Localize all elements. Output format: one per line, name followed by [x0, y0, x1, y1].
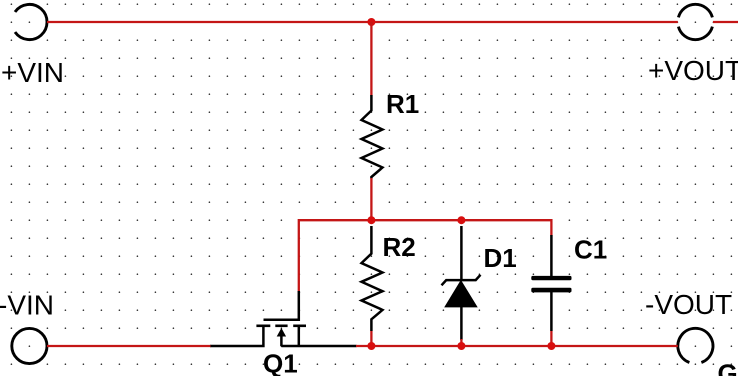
svg-text:C1: C1 [574, 235, 607, 265]
node A junction dot on top rail [367, 18, 375, 26]
node junction dot R2/bottom rail [367, 342, 375, 350]
capacitor C1 [531, 235, 571, 331]
svg-text:R2: R2 [383, 232, 416, 262]
svg-text:+VOUT: +VOUT [648, 55, 738, 86]
label R2 [383, 232, 416, 262]
label R1 [386, 89, 419, 119]
svg-text:D1: D1 [484, 243, 517, 273]
transistor Q1 (N-channel MOSFET) [210, 291, 357, 346]
terminal -VIN (port circle) [12, 328, 47, 363]
wire top rail stub right of +VOUT to image edge [713, 21, 738, 23]
wire gate node rail with drops to Q1 gate and C1 [299, 220, 552, 291]
node junction dot D1/bottom rail [457, 342, 465, 350]
wire from R1 down to gate node rail [370, 178, 372, 220]
wire D1 anode to bottom rail [460, 339, 462, 346]
terminal -VOUT (port circle, gap on south) [678, 328, 713, 362]
node junction dot C1/bottom rail [547, 342, 555, 350]
label +VIN [1, 57, 64, 88]
wire from top rail down to R1 [370, 22, 372, 96]
terminal +VOUT (port circle, gaps west and east) [678, 4, 712, 39]
svg-text:+VIN: +VIN [1, 57, 64, 88]
wire R2 bottom lead to bottom rail [370, 331, 372, 346]
wire C1 bottom lead to bottom rail [550, 331, 552, 346]
svg-text:G: G [718, 359, 738, 376]
node junction dot at R1/R2 on gate rail [367, 216, 375, 224]
label -VOUT [645, 289, 732, 320]
svg-text:R1: R1 [386, 89, 419, 119]
wire bottom rail from Q1 source to -VOUT [356, 345, 678, 347]
svg-text:-VOUT: -VOUT [645, 289, 732, 320]
label G (ground port, cropped at bottom edge) [718, 359, 738, 376]
wire top rail from +VIN to +VOUT [47, 21, 678, 23]
terminal +VIN (port circle, gap on west) [15, 4, 47, 39]
svg-text:Q1: Q1 [263, 349, 298, 376]
label D1 [484, 243, 517, 273]
node junction dot at D1 on gate rail [457, 216, 465, 224]
label +VOUT [648, 55, 738, 86]
svg-text:-VIN: -VIN [0, 290, 54, 321]
wire bottom rail from -VIN to Q1 drain [47, 345, 211, 347]
resistor R2 [362, 226, 383, 331]
zener diode D1 [442, 226, 481, 340]
label Q1 [263, 349, 298, 376]
resistor R1 [362, 95, 383, 179]
label -VIN [0, 290, 54, 321]
label C1 [574, 235, 607, 265]
